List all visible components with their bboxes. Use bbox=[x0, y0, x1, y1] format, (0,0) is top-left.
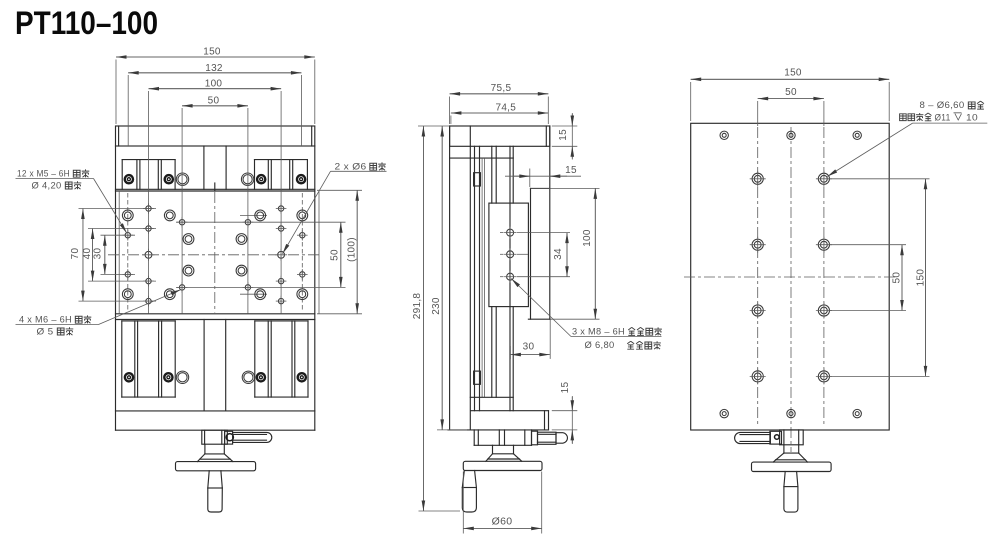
title PT110-100 bbox=[15, 5, 158, 41]
svg-text:3 x M8 – 6H: 3 x M8 – 6H bbox=[572, 327, 625, 337]
front knob neck bbox=[197, 444, 233, 461]
back dim 50 top bbox=[758, 87, 824, 126]
front plate hidden column lines bbox=[128, 193, 302, 312]
svg-text:Ø 5: Ø 5 bbox=[37, 326, 54, 336]
side dim 34 bbox=[553, 233, 567, 277]
front plate row lines bbox=[79, 190, 363, 301]
front dim 30 bbox=[93, 235, 105, 274]
side dim 230 bbox=[431, 126, 467, 430]
svg-text:4 x M6 – 6H: 4 x M6 – 6H bbox=[19, 315, 72, 325]
front lower rail screws bbox=[125, 371, 306, 383]
front lower left rail block bbox=[122, 321, 175, 397]
front knob stem bbox=[202, 430, 228, 444]
back row lines bbox=[830, 179, 930, 377]
svg-text:291,8: 291,8 bbox=[412, 293, 423, 320]
svg-text:50: 50 bbox=[785, 87, 797, 98]
back knob shaft bbox=[784, 472, 798, 513]
svg-text:100: 100 bbox=[582, 229, 593, 247]
side back plate bbox=[528, 126, 550, 359]
svg-text:50: 50 bbox=[208, 96, 220, 107]
svg-text:15: 15 bbox=[565, 165, 577, 176]
back dim 50 right bbox=[892, 245, 903, 311]
back knob neck bbox=[773, 445, 807, 462]
side knob neck bbox=[486, 445, 522, 461]
side M8 holes 3x bbox=[500, 227, 570, 283]
svg-text:Ø60: Ø60 bbox=[492, 516, 513, 528]
side dim 15 bottom-right bbox=[552, 382, 578, 444]
front label 2xdia6 bbox=[283, 162, 387, 254]
svg-text:150: 150 bbox=[203, 47, 221, 58]
svg-text:30: 30 bbox=[523, 342, 535, 353]
front dim column lines bbox=[149, 91, 282, 314]
svg-text:40: 40 bbox=[82, 248, 93, 260]
svg-text:PT110–100: PT110–100 bbox=[15, 5, 158, 41]
back knob clamp block bbox=[770, 431, 782, 444]
side carriage column bbox=[470, 146, 513, 410]
front M5/M6 tapped holes 16x bbox=[123, 203, 308, 306]
side knob clamp barrel bbox=[538, 432, 557, 444]
front dim 50 right bbox=[330, 222, 341, 287]
svg-text:230: 230 bbox=[431, 297, 442, 315]
svg-text:70: 70 bbox=[70, 248, 81, 260]
front dim 100 bbox=[149, 78, 282, 89]
front dim 70 bbox=[70, 209, 83, 302]
svg-text:50: 50 bbox=[892, 272, 903, 284]
front knob shaft bbox=[208, 471, 223, 512]
side bottom bar bbox=[471, 411, 549, 430]
svg-text:30: 30 bbox=[93, 248, 104, 260]
front view top plate bar bbox=[116, 126, 315, 146]
front dim 132 bbox=[128, 63, 301, 146]
back knob flange bbox=[752, 462, 832, 471]
side label dia6.80 bbox=[585, 340, 661, 350]
back view plate bbox=[691, 123, 890, 430]
svg-text:Ø 4,20: Ø 4,20 bbox=[32, 180, 62, 190]
front knob flange bbox=[176, 462, 256, 471]
back knob stem bbox=[780, 430, 804, 445]
side knob clamp block bbox=[532, 431, 538, 445]
back view centerlines bbox=[684, 127, 896, 452]
svg-text:74,5: 74,5 bbox=[495, 103, 516, 114]
front label 12xM5 bbox=[16, 169, 127, 234]
front dim 150 bbox=[116, 47, 315, 125]
svg-text:15: 15 bbox=[558, 129, 569, 141]
front view body outline bbox=[116, 146, 320, 430]
back cover screws 6x bbox=[720, 131, 861, 418]
side M8 strip plate bbox=[489, 203, 529, 307]
svg-text:100: 100 bbox=[205, 78, 223, 89]
side hanging knob shaft bbox=[462, 471, 476, 513]
front lower right rail block bbox=[255, 321, 308, 397]
front dim 50 top bbox=[182, 96, 248, 107]
front dim 40 bbox=[82, 229, 93, 282]
front knob clamp lever bbox=[233, 432, 272, 442]
side dim 291,8 bbox=[412, 126, 460, 511]
svg-text:2 x Ø6: 2 x Ø6 bbox=[335, 162, 367, 172]
svg-text:75,5: 75,5 bbox=[491, 83, 512, 94]
side dim 74,5 bbox=[451, 103, 548, 125]
svg-text:150: 150 bbox=[916, 269, 927, 287]
side knob stem row bbox=[474, 430, 531, 445]
svg-text:34: 34 bbox=[553, 248, 564, 260]
svg-text:Ø 6,80: Ø 6,80 bbox=[585, 340, 615, 350]
front upper right rail block bbox=[255, 160, 308, 190]
side clamp strip bbox=[474, 146, 485, 410]
svg-text:8 – Ø6,60: 8 – Ø6,60 bbox=[920, 100, 965, 110]
side knob flange bbox=[463, 461, 542, 470]
front counterbore holes 12x bbox=[122, 210, 307, 300]
side dim 100 bbox=[531, 188, 600, 319]
back knob lever pill bbox=[735, 432, 771, 443]
back dim 150 top bbox=[691, 68, 890, 121]
front dim (100) right bbox=[317, 190, 362, 313]
svg-text:150: 150 bbox=[784, 68, 802, 79]
svg-text:15: 15 bbox=[560, 382, 571, 394]
side view top bar bbox=[450, 126, 550, 146]
front label 4xM6 bbox=[16, 290, 182, 325]
front label dia4.20 bbox=[32, 180, 82, 190]
front upper left rail block bbox=[122, 160, 175, 190]
front knob clamp block bbox=[225, 431, 234, 444]
side dim 30 bbox=[510, 342, 549, 360]
front lower center tower bbox=[204, 320, 226, 411]
svg-text:12 x M5 – 6H: 12 x M5 – 6H bbox=[17, 169, 70, 179]
side dim 15 mid bbox=[505, 165, 581, 187]
svg-text:50: 50 bbox=[330, 249, 341, 261]
back dim 150 right bbox=[916, 179, 927, 377]
svg-text:Ø11: Ø11 bbox=[935, 112, 951, 122]
front upper rail screws bbox=[125, 173, 305, 185]
svg-text:10: 10 bbox=[966, 112, 978, 122]
side dim 15 top-right bbox=[552, 113, 578, 160]
side knob clamp pill cap bbox=[556, 433, 567, 444]
front upper center tower bbox=[204, 146, 226, 191]
side dim 75,5 bbox=[450, 83, 549, 124]
back label 8xdia6.60 bbox=[827, 100, 987, 176]
back dia6.60 counterbore holes 8x bbox=[750, 171, 832, 385]
front plate centerlines bbox=[108, 192, 322, 313]
side label 3xM8 bbox=[511, 279, 662, 337]
svg-text:132: 132 bbox=[205, 63, 223, 74]
front 2x dia6 holes bbox=[143, 249, 288, 261]
svg-text:(100): (100) bbox=[347, 237, 358, 262]
side view base plate (left) bbox=[448, 126, 549, 430]
side dim dia60 bbox=[463, 472, 541, 534]
front label dia5 bbox=[37, 326, 74, 336]
